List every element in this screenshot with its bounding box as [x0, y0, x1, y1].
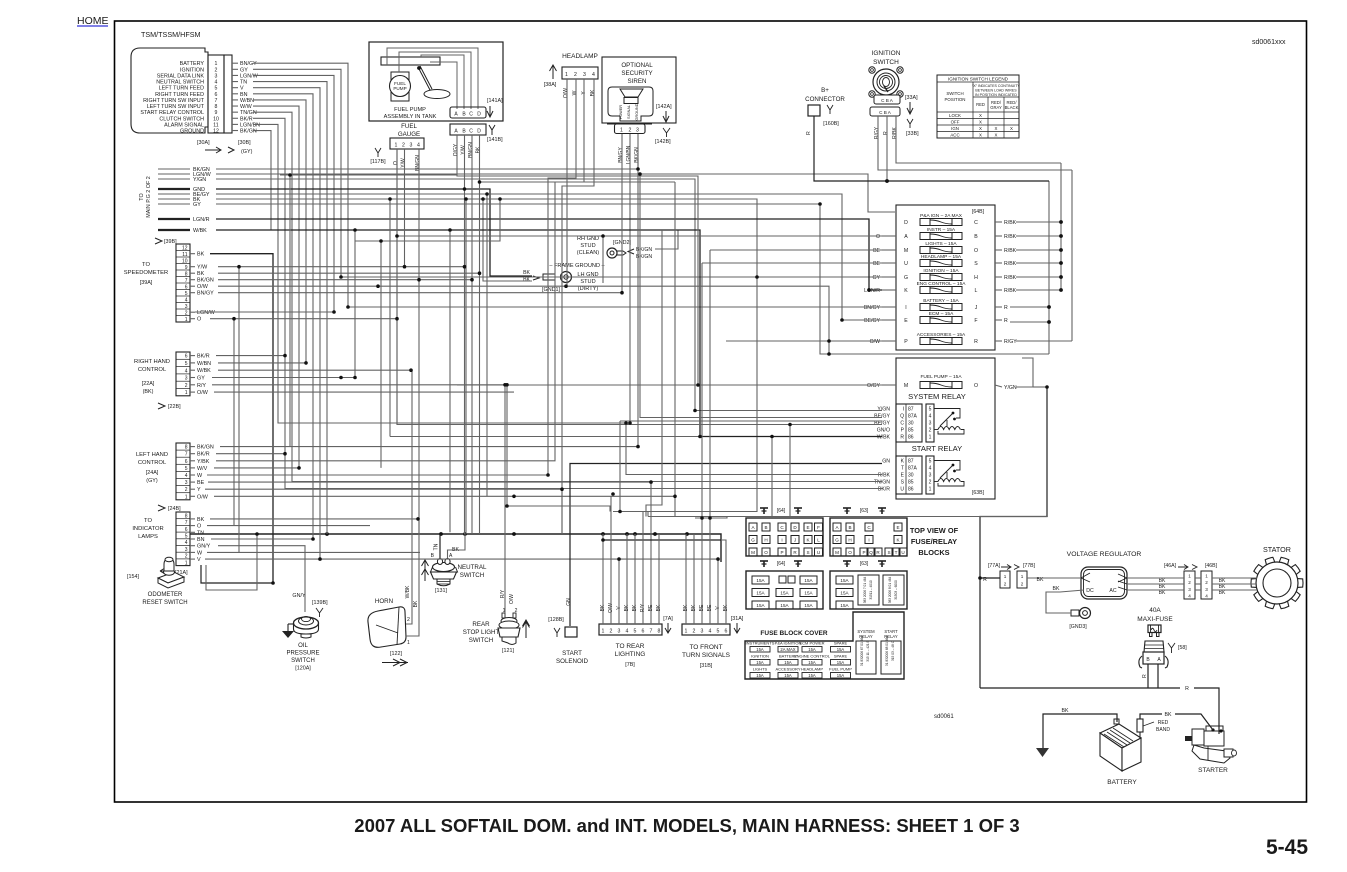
svg-text:X: X — [979, 120, 982, 125]
svg-text:W/V: W/V — [197, 466, 208, 472]
wire BK stub branch to frame ground — [483, 199, 532, 281]
svg-text:BETWEEN LOAD WIRES: BETWEEN LOAD WIRES — [975, 89, 1017, 93]
svg-text:[141A]: [141A] — [487, 98, 503, 104]
svg-text:RESET SWITCH: RESET SWITCH — [142, 600, 187, 606]
wire long y516 run — [648, 516, 1047, 518]
wire BE front turn 4 — [709, 518, 711, 624]
wire R fuse output bus — [885, 179, 1051, 354]
wire stator link 2 — [1195, 583, 1201, 585]
svg-text:5: 5 — [185, 533, 188, 539]
svg-text:U: U — [904, 261, 908, 267]
wire BN TSM pin6 — [253, 94, 313, 539]
wire odometer wire 1 — [201, 565, 273, 583]
wire BK/GN stub to siren — [216, 158, 638, 169]
connector RIGHT HAND CONTROL [22A] — [134, 352, 211, 410]
svg-text:STOP LIGHT: STOP LIGHT — [463, 629, 500, 636]
connector TO FRONT TURN SIGNALS [31A] — [682, 604, 744, 669]
svg-text:W/BN: W/BN — [197, 361, 211, 367]
wire Y/GN stub to system relay — [216, 179, 882, 411]
svg-text:6: 6 — [185, 284, 188, 290]
svg-text:F: F — [817, 525, 820, 530]
svg-text:2: 2 — [1188, 580, 1191, 585]
svg-text:TO: TO — [142, 262, 150, 268]
svg-text:VOLTAGE REGULATOR: VOLTAGE REGULATOR — [1067, 551, 1142, 558]
system relay — [874, 392, 966, 442]
svg-text:3: 3 — [929, 421, 932, 427]
svg-text:87: 87 — [908, 459, 914, 465]
wire O/W headlamp wire — [566, 79, 568, 286]
svg-text:2A MAX: 2A MAX — [780, 647, 795, 652]
svg-text:PRESSURE: PRESSURE — [286, 651, 319, 657]
svg-text:ASSEMBLY IN TANK: ASSEMBLY IN TANK — [384, 114, 437, 120]
svg-text:TN/GN: TN/GN — [240, 110, 257, 116]
wire BK battery positive to starter — [1140, 714, 1162, 719]
svg-text:O/W: O/W — [509, 594, 515, 604]
svg-text:1: 1 — [929, 435, 932, 441]
svg-text:1: 1 — [1188, 574, 1191, 579]
connector [30A]/[30B] — [197, 140, 253, 155]
wire W indicator — [207, 551, 420, 553]
svg-text:15A: 15A — [804, 603, 813, 608]
sheet title — [354, 815, 1019, 836]
svg-text:31503 – 6000: 31503 – 6000 — [894, 580, 898, 600]
svg-text:7: 7 — [185, 278, 188, 284]
svg-text:W: W — [572, 90, 578, 95]
svg-text:ENG CONTROL – 15A: ENG CONTROL – 15A — [917, 281, 967, 287]
svg-text:2: 2 — [574, 72, 577, 78]
wire W/BK RHC to horn — [218, 370, 412, 624]
svg-text:sd0061xxx: sd0061xxx — [1252, 39, 1286, 46]
svg-text:TOP VIEW OF: TOP VIEW OF — [910, 526, 959, 535]
page number 5-45 — [1266, 836, 1308, 859]
wire BK neutral switch lead — [448, 534, 466, 558]
stator — [1251, 545, 1303, 609]
svg-text:3: 3 — [618, 629, 621, 635]
svg-text:MAXI-FUSE: MAXI-FUSE — [1137, 616, 1173, 623]
svg-text:85: 85 — [908, 480, 914, 486]
svg-text:B+: B+ — [821, 87, 829, 94]
svg-text:DC: DC — [1086, 588, 1094, 594]
svg-text:B: B — [974, 234, 978, 240]
svg-text:BK: BK — [476, 146, 482, 153]
svg-text:SIREN: SIREN — [628, 78, 647, 85]
wire W/V LHC — [214, 467, 299, 469]
svg-text:ECM – 15A: ECM – 15A — [929, 311, 954, 317]
svg-text:O: O — [393, 161, 399, 165]
svg-text:Y/BK: Y/BK — [197, 459, 210, 465]
svg-text:R/BK: R/BK — [878, 473, 891, 479]
wire W/BK stub to system relay — [216, 230, 882, 437]
svg-text:7: 7 — [185, 452, 188, 458]
svg-text:FUEL PUMP: FUEL PUMP — [394, 107, 426, 113]
svg-text:BN/GY: BN/GY — [618, 147, 624, 163]
svg-text:1: 1 — [1021, 574, 1024, 579]
svg-text:1: 1 — [620, 128, 623, 134]
svg-text:6: 6 — [725, 629, 728, 635]
svg-text:O: O — [974, 248, 978, 254]
svg-text:BK/R: BK/R — [878, 487, 890, 493]
wire BN/GY siren wire — [621, 134, 623, 158]
wire mesh v290 — [289, 175, 291, 447]
svg-text:4: 4 — [185, 368, 188, 374]
svg-text:Y: Y — [197, 487, 201, 493]
svg-text:GROUND: GROUND — [635, 103, 639, 120]
svg-text:4: 4 — [592, 72, 595, 78]
svg-text:OFF: OFF — [951, 120, 960, 125]
wire maxi fuse A wire — [1157, 664, 1159, 688]
svg-text:315 11 – 421 B: 315 11 – 421 B — [866, 640, 870, 661]
wire BK front turn 1 — [685, 534, 687, 624]
svg-text:HEADLAMP: HEADLAMP — [562, 53, 598, 60]
svg-text:BK: BK — [1165, 712, 1172, 718]
svg-text:C: C — [469, 129, 473, 135]
wire O/W rear lighting 2 — [610, 496, 612, 624]
wire LGN/BN siren wire — [629, 134, 631, 158]
svg-text:2: 2 — [185, 554, 188, 560]
svg-text:31 832006 68 01 464: 31 832006 68 01 464 — [885, 636, 889, 666]
svg-text:[GND1]: [GND1] — [542, 287, 560, 293]
svg-text:T: T — [895, 550, 898, 555]
svg-text:[22A]: [22A] — [142, 381, 155, 387]
wire BK speedometer pin8 — [218, 272, 480, 274]
svg-text:(GY): (GY) — [241, 149, 253, 155]
svg-text:4: 4 — [709, 629, 712, 635]
svg-text:BK/R: BK/R — [240, 116, 253, 122]
svg-text:15A: 15A — [780, 591, 789, 596]
svg-text:9: 9 — [185, 265, 188, 271]
svg-text:15A: 15A — [840, 578, 849, 583]
wire BK rear lighting 1 — [602, 534, 604, 624]
svg-text:E: E — [904, 318, 908, 324]
wire V TSM pin5 — [253, 88, 320, 559]
svg-text:R: R — [1185, 686, 1189, 692]
svg-text:E: E — [806, 525, 809, 530]
svg-text:87: 87 — [908, 407, 914, 413]
svg-text:GY: GY — [240, 67, 248, 73]
svg-text:TO REAR: TO REAR — [616, 643, 645, 650]
svg-text:M: M — [904, 248, 908, 254]
svg-text:30: 30 — [908, 473, 914, 479]
ignition switch [33A] — [858, 50, 919, 139]
wire W/W TSM pin8 — [253, 106, 299, 468]
svg-text:3: 3 — [636, 128, 639, 134]
svg-text:4: 4 — [1188, 594, 1191, 599]
svg-text:R/BK: R/BK — [1004, 234, 1017, 240]
svg-text:BN/GY: BN/GY — [197, 291, 214, 297]
svg-text:[33A]: [33A] — [905, 95, 918, 101]
svg-text:3: 3 — [410, 143, 413, 149]
svg-text:[117B]: [117B] — [370, 159, 386, 165]
svg-text:RED: RED — [1158, 720, 1169, 726]
svg-text:FUEL PUMP: FUEL PUMP — [829, 667, 852, 672]
wire LGN/W stub — [216, 174, 895, 212]
wire LGN/R stub to eng control fuse — [216, 219, 882, 290]
svg-text:O: O — [197, 317, 201, 323]
svg-text:O/W: O/W — [563, 88, 569, 98]
wire W/BN RHC — [218, 362, 306, 364]
svg-text:O/W: O/W — [197, 390, 209, 396]
svg-text:D: D — [904, 220, 908, 226]
svg-text:[22B]: [22B] — [168, 404, 181, 410]
svg-text:– FRAME GROUND –: – FRAME GROUND – — [549, 263, 605, 269]
svg-text:BK: BK — [1219, 590, 1226, 596]
svg-text:86: 86 — [908, 487, 914, 493]
fuse cover relays — [856, 629, 901, 674]
wire O/GY fuel pump wire to fuse — [457, 135, 882, 385]
svg-text:RIGHT HAND: RIGHT HAND — [134, 359, 170, 365]
svg-text:V: V — [240, 86, 244, 92]
svg-text:TN/GN: TN/GN — [874, 480, 890, 486]
svg-text:O: O — [764, 550, 768, 555]
wire x648 link — [647, 512, 649, 517]
svg-text:F: F — [974, 318, 977, 324]
svg-text:2: 2 — [185, 487, 188, 493]
wire BE front turn 4b — [709, 250, 711, 518]
svg-text:1: 1 — [407, 640, 410, 646]
wire V indicator to turn signals — [205, 559, 718, 624]
wire BK/R LHC — [216, 453, 285, 455]
svg-text:3: 3 — [185, 304, 188, 310]
svg-text:SOLENOID: SOLENOID — [556, 658, 589, 665]
wire BE front turn 3b — [701, 263, 703, 518]
svg-text:[46A]: [46A] — [1164, 563, 1177, 569]
svg-text:BATTERY: BATTERY — [1107, 779, 1137, 786]
wire R/BK start relay wire — [626, 423, 882, 475]
label W/BK horn wire — [405, 585, 411, 598]
svg-text:15A: 15A — [837, 647, 845, 652]
svg-text:[77A]: [77A] — [988, 563, 1001, 569]
svg-text:O: O — [876, 234, 880, 240]
drawing number sd0061xxx — [1252, 39, 1286, 46]
svg-text:(GY): (GY) — [146, 478, 158, 484]
svg-text:IN POSITION INDICATED: IN POSITION INDICATED — [975, 93, 1017, 97]
svg-text:M: M — [835, 550, 839, 555]
svg-text:GN/O: GN/O — [877, 428, 890, 434]
wire O instrument drop — [602, 236, 604, 283]
svg-text:11: 11 — [213, 122, 218, 128]
wire GY TSM pin2 to ignition fuse — [253, 69, 882, 277]
svg-text:4: 4 — [626, 629, 629, 635]
svg-text:1: 1 — [185, 317, 188, 323]
svg-text:R: R — [1142, 674, 1148, 678]
svg-text:BK/GN: BK/GN — [197, 278, 214, 284]
svg-text:3: 3 — [701, 629, 704, 635]
wire LGN/BN TSM pin11 to siren — [253, 124, 630, 423]
svg-text:I: I — [903, 407, 904, 413]
battery — [1100, 719, 1141, 786]
wire x507 drop — [506, 385, 508, 506]
fuse panel [64B] with 9 fuses — [864, 205, 1017, 350]
voltage regulator — [1067, 551, 1142, 599]
svg-text:W/BK: W/BK — [197, 368, 211, 374]
svg-text:15A: 15A — [756, 647, 764, 652]
wire BK battery positive to starter 2 — [1175, 714, 1213, 730]
wire maze v662 — [646, 230, 662, 517]
svg-text:15A: 15A — [756, 591, 765, 596]
wire R bus to starter 2 — [1194, 688, 1219, 734]
svg-text:1: 1 — [395, 143, 398, 149]
svg-text:4: 4 — [929, 414, 932, 420]
svg-text:SYSTEM RELAY: SYSTEM RELAY — [908, 392, 966, 401]
wire BK/GN siren wire — [637, 134, 639, 158]
svg-text:15A: 15A — [804, 591, 813, 596]
svg-text:GN: GN — [566, 598, 572, 606]
svg-text:1: 1 — [929, 487, 932, 493]
svg-text:2: 2 — [1021, 582, 1024, 587]
svg-text:BK: BK — [197, 517, 205, 523]
wire stator wire 2 — [1127, 583, 1184, 585]
wire R ignition wire — [886, 116, 888, 181]
wire mesh h182 — [480, 181, 676, 183]
wire Y/W fuel gauge wire — [404, 149, 406, 267]
svg-text:NEUTRAL: NEUTRAL — [458, 564, 487, 571]
svg-text:4: 4 — [1205, 594, 1208, 599]
svg-text:FUSE/RELAY: FUSE/RELAY — [911, 537, 957, 546]
svg-text:10: 10 — [182, 258, 188, 264]
wire W LHC to headlamp — [207, 474, 548, 476]
svg-text:15A: 15A — [837, 673, 845, 678]
wire x620 drop — [619, 421, 621, 512]
svg-text:REAR: REAR — [472, 621, 490, 628]
svg-text:OIL: OIL — [298, 643, 308, 649]
svg-text:ENGINE CONTROL: ENGINE CONTROL — [794, 654, 831, 659]
svg-text:[38A]: [38A] — [544, 82, 557, 88]
svg-text:R: R — [974, 339, 978, 345]
svg-text:LEFT HAND: LEFT HAND — [136, 452, 168, 458]
svg-text:C: C — [900, 421, 904, 427]
drawing number sd0061 — [934, 714, 954, 720]
ignition switch legend table — [937, 75, 1020, 138]
svg-text:“X” INDICATES CONTINUITY: “X” INDICATES CONTINUITY — [972, 84, 1020, 88]
svg-text:5: 5 — [185, 361, 188, 367]
svg-text:3: 3 — [215, 73, 218, 79]
wire BE/GY stub to ECM fuse — [216, 194, 882, 320]
svg-text:3: 3 — [929, 473, 932, 479]
svg-text:12: 12 — [213, 129, 219, 135]
LH ground stud / frame ground [GND1] — [523, 263, 605, 293]
svg-text:IGNITION SWITCH LEGEND: IGNITION SWITCH LEGEND — [948, 77, 1009, 82]
svg-text:BLACK: BLACK — [1005, 105, 1019, 110]
svg-text:U: U — [817, 550, 820, 555]
svg-text:INDICATOR: INDICATOR — [132, 526, 163, 532]
svg-text:LGN/W: LGN/W — [197, 310, 216, 316]
svg-text:1: 1 — [185, 390, 188, 396]
svg-text:C: C — [974, 220, 978, 226]
svg-text:FUSE BLOCK COVER: FUSE BLOCK COVER — [760, 630, 827, 637]
svg-text:O: O — [974, 383, 978, 389]
svg-text:Y/W: Y/W — [197, 265, 208, 271]
wire BN/GY speedometer to siren — [218, 158, 622, 293]
svg-text:Y/W: Y/W — [401, 158, 407, 168]
wire BE/GY system relay input — [640, 174, 882, 418]
svg-text:[GND3]: [GND3] — [1069, 624, 1087, 630]
svg-text:POSITION: POSITION — [945, 97, 966, 102]
svg-text:383 2006 7 01 464: 383 2006 7 01 464 — [863, 576, 867, 603]
svg-text:GAUGE: GAUGE — [398, 131, 420, 138]
svg-text:AC: AC — [1109, 588, 1116, 594]
svg-text:IGN: IGN — [951, 126, 959, 131]
svg-text:5-45: 5-45 — [1266, 836, 1308, 859]
fuel pump fuse [63B] — [867, 358, 1017, 499]
svg-text:6: 6 — [185, 354, 188, 360]
svg-text:5: 5 — [929, 459, 932, 465]
wire BK/R RHC — [216, 355, 285, 357]
svg-text:IGNITION: IGNITION — [180, 67, 204, 73]
svg-text:1: 1 — [1004, 574, 1007, 579]
svg-text:15A: 15A — [840, 603, 849, 608]
svg-text:LGN/BN: LGN/BN — [626, 145, 632, 164]
wire BK rear lighting 5 — [634, 534, 636, 624]
svg-text:CONNECTOR: CONNECTOR — [805, 96, 845, 103]
wire R/BK ignition wire — [896, 116, 1061, 163]
wire stator wire 4 — [1212, 577, 1257, 579]
wire BK battery negative — [1043, 714, 1117, 748]
svg-text:H: H — [848, 538, 851, 543]
svg-text:K: K — [904, 288, 908, 294]
wire mesh v772 — [771, 437, 773, 517]
svg-text:(DIRTY): (DIRTY) — [578, 286, 599, 292]
svg-text:6: 6 — [185, 459, 188, 465]
HOME link — [77, 15, 109, 27]
svg-text:LOCK: LOCK — [949, 113, 961, 118]
wire BK stub — [216, 199, 757, 512]
horn [122] — [368, 598, 410, 666]
wire BK/GN TSM pin12 to ground stud — [253, 131, 678, 249]
svg-text:R/GY: R/GY — [1004, 339, 1017, 345]
wire BK rear lighting 8 — [658, 534, 660, 624]
wire W headlamp wire — [548, 79, 576, 475]
start solenoid [128B] — [548, 598, 588, 665]
wire V rear lighting 3 — [618, 559, 620, 624]
svg-text:OPTIONAL: OPTIONAL — [621, 62, 653, 69]
svg-text:POWER: POWER — [619, 105, 623, 120]
wire mesh v234 — [233, 319, 235, 526]
wire GND stub to frame ground — [216, 189, 532, 276]
svg-text:STARTER: STARTER — [1198, 767, 1228, 774]
wire R bus to starter — [980, 687, 1180, 689]
svg-text:LIGHTS: LIGHTS — [753, 667, 768, 672]
svg-text:BE: BE — [873, 261, 880, 267]
svg-text:I: I — [868, 538, 869, 543]
connector [46A]/[46B] — [1159, 563, 1226, 599]
svg-text:RIGHT TURN SW INPUT: RIGHT TURN SW INPUT — [143, 98, 205, 104]
wire mesh v450 — [449, 230, 451, 532]
svg-text:D: D — [477, 112, 481, 118]
svg-text:ECM POWER: ECM POWER — [799, 641, 824, 646]
svg-text:15A: 15A — [808, 647, 816, 652]
svg-text:ALARM SIGNAL: ALARM SIGNAL — [164, 122, 204, 128]
svg-text:STUD: STUD — [580, 243, 595, 249]
svg-text:BK: BK — [523, 270, 530, 276]
svg-text:ACC: ACC — [950, 133, 959, 138]
fuel gauge connector [117B] — [370, 123, 424, 171]
svg-text:BN: BN — [197, 537, 205, 543]
wire O/W RHC — [214, 391, 514, 393]
svg-text:S: S — [887, 550, 890, 555]
svg-text:[131]: [131] — [435, 588, 447, 594]
svg-text:30: 30 — [908, 421, 914, 427]
svg-text:W/BK: W/BK — [405, 585, 411, 598]
wire R B+ connector feed — [814, 116, 1049, 181]
TSM/TSSM/HFSM module connector — [131, 30, 260, 135]
svg-text:T: T — [901, 466, 904, 472]
svg-text:O: O — [197, 524, 201, 530]
svg-text:CONTROL: CONTROL — [138, 367, 167, 373]
wire red band to battery — [1139, 732, 1141, 738]
svg-text:[31B]: [31B] — [700, 663, 713, 669]
svg-text:CLUTCH SWITCH: CLUTCH SWITCH — [159, 116, 204, 122]
wire GY stub — [216, 204, 1049, 354]
